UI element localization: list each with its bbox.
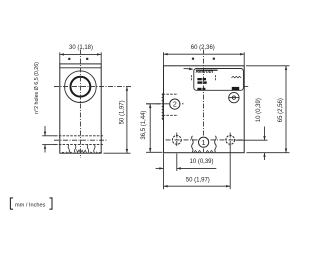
left view horizontal centerline — [54, 86, 131, 88]
dim 10 bottom tail left — [156, 167, 164, 169]
dim 60 line — [164, 53, 245, 55]
side port centerline — [146, 103, 184, 105]
nameplate mark row 3 — [197, 88, 205, 90]
nameplate squiggle — [232, 76, 242, 77]
dim 36.5 line — [149, 104, 151, 153]
dim 65 extension bottom — [247, 152, 290, 154]
right mounting hole circle — [226, 136, 235, 145]
right hole extension to right — [236, 139, 268, 141]
dim 50 bottom arrow left — [164, 185, 168, 187]
svg-text:1: 1 — [202, 140, 206, 147]
dim 30 extension line right — [100, 52, 102, 64]
left view top screw square left — [68, 58, 70, 60]
left view body outline — [60, 64, 101, 153]
n2 holes dim tail bottom — [44, 145, 46, 153]
dim 50 left view line — [126, 87, 128, 154]
balloon 1 circle — [199, 137, 209, 147]
right view vertical centerline — [203, 50, 205, 153]
dim 65 extension top — [246, 65, 290, 67]
dim 65 line — [285, 66, 287, 153]
dim 30 arrow right — [97, 53, 101, 55]
dim 60 arrow left — [164, 53, 168, 55]
svg-text:60 (2,36): 60 (2,36) — [191, 45, 215, 51]
dim 10 bottom arrow left — [159, 167, 163, 169]
cover plate rounded rect — [194, 69, 244, 91]
svg-text:65 (2,56): 65 (2,56) — [278, 98, 284, 122]
tick right of blob — [244, 85, 248, 87]
left view hole bottom hidden line — [55, 144, 103, 146]
cover screw head circle — [229, 92, 239, 102]
dim 50 left view arrow top — [126, 87, 128, 91]
svg-text:36,5 (1,44): 36,5 (1,44) — [141, 111, 147, 140]
side port hidden line top — [163, 93, 178, 95]
dim 10 bottom line right part — [177, 167, 217, 169]
dim 65 arrow top — [285, 66, 287, 70]
balloon 2 circle — [170, 99, 180, 109]
nameplate mark row 2 — [197, 81, 206, 83]
side port hidden line bottom — [163, 114, 178, 116]
nameplate mark row 1 — [197, 78, 206, 80]
right view top screw square left — [192, 58, 194, 60]
dim 10 bottom arrow right — [177, 167, 181, 169]
right view top screw square right — [213, 58, 215, 60]
left view vertical centerline — [79, 50, 81, 159]
n2 holes extension tick bottom — [42, 144, 55, 146]
bottom dims extension at left hole — [176, 153, 178, 171]
dim 60 extension right — [243, 52, 245, 66]
side port edge serration — [162, 93, 163, 120]
left mounting hole vertical centerline — [176, 133, 178, 148]
dim 10 right arrow bottom — [263, 153, 265, 157]
right view body outline — [164, 66, 245, 153]
dim 30 line — [60, 53, 101, 55]
left view hole centerline — [54, 139, 107, 141]
n2 holes dim tail top — [44, 126, 46, 136]
dim 36.5 extension top — [146, 103, 161, 105]
right mounting hole vertical centerline — [229, 133, 231, 148]
left view top screw square right — [86, 58, 88, 60]
nameplate dark blob — [232, 87, 239, 91]
units legend bracket right — [49, 198, 52, 209]
units legend bracket left — [10, 198, 13, 209]
dim 65 arrow bottom — [285, 149, 287, 153]
dim 30 extension line left — [59, 52, 61, 64]
dim 60 extension left — [163, 52, 165, 66]
bottom port break line right — [215, 136, 217, 152]
left view outer circle — [65, 71, 97, 103]
left view bottom serration — [62, 150, 101, 153]
bottom port break line left — [192, 136, 194, 152]
cover leader arrow — [189, 68, 194, 71]
svg-text:50 (1,97): 50 (1,97) — [186, 178, 210, 184]
bottom dims extension at right hole — [229, 145, 231, 189]
left view inner circle — [71, 77, 91, 97]
left mounting hole circle — [172, 136, 181, 145]
cover screw slot — [229, 97, 240, 99]
hidden screw line left — [190, 75, 192, 80]
dim 30 arrow left — [60, 53, 64, 55]
dim 36.5 arrow bottom — [149, 148, 151, 152]
cover leader line — [184, 68, 190, 70]
dim 50 bottom line — [164, 185, 231, 187]
left view foot break lines — [68, 145, 95, 153]
dim 50 left view extension bottom — [104, 152, 131, 154]
dim 60 arrow right — [240, 53, 244, 55]
dim 10 right arrow top — [263, 136, 265, 140]
cover screw inner circle — [232, 96, 235, 99]
dim 50 bottom arrow right — [226, 185, 230, 187]
dim 36.5 arrow top — [149, 104, 151, 108]
hidden screw line right — [215, 75, 217, 80]
dim 10 right tail top — [264, 127, 266, 141]
svg-text:30 (1,18): 30 (1,18) — [69, 45, 93, 51]
n2 holes dim arrow top — [44, 132, 46, 136]
bottom dims extension at body left edge — [163, 153, 165, 189]
svg-text:10 (0,39): 10 (0,39) — [189, 159, 213, 165]
left view hole top hidden line — [55, 135, 103, 137]
holes centerline — [166, 139, 244, 141]
dim 36.5 extension bottom — [146, 151, 162, 153]
n2 holes dim arrow bottom — [44, 145, 46, 149]
left view cap seam line — [60, 67, 101, 69]
svg-text:n°2 holes Ø 6,5 (0,26): n°2 holes Ø 6,5 (0,26) — [34, 62, 40, 114]
svg-text:10 (0,39): 10 (0,39) — [256, 98, 262, 122]
svg-text:mm / Inches: mm / Inches — [15, 202, 46, 208]
dim 50 left view arrow bottom — [126, 149, 128, 153]
svg-text:2: 2 — [173, 102, 177, 109]
bottom edge serration — [194, 150, 213, 152]
n2 holes extension tick top — [42, 135, 55, 137]
svg-text:50 (1,97): 50 (1,97) — [119, 100, 125, 124]
dim 10 right tail bottom — [264, 153, 266, 160]
